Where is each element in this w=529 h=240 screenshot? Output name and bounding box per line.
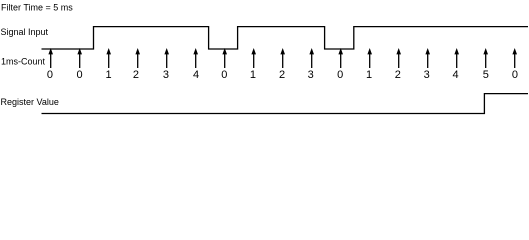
svg-text:0: 0	[47, 69, 53, 81]
svg-text:1: 1	[250, 69, 256, 81]
svg-text:2: 2	[133, 69, 139, 81]
arrow 13 (1ms sample tick)	[396, 48, 401, 68]
arrow 9 (1ms sample tick)	[280, 48, 285, 68]
svg-text:3: 3	[424, 69, 430, 81]
arrow 1 (1ms sample tick)	[48, 48, 53, 68]
svg-text:0: 0	[221, 69, 227, 81]
arrow 4 (1ms sample tick)	[135, 48, 140, 68]
svg-text:Filter Time = 5 ms: Filter Time = 5 ms	[1, 2, 73, 12]
svg-text:3: 3	[163, 69, 169, 81]
arrow 15 (1ms sample tick)	[454, 48, 459, 68]
arrow 14 (1ms sample tick)	[425, 48, 430, 68]
svg-text:0: 0	[77, 69, 83, 81]
svg-text:1ms-Count: 1ms-Count	[1, 57, 46, 67]
svg-text:5: 5	[483, 69, 489, 81]
arrow 6 (1ms sample tick)	[193, 48, 198, 68]
arrow 11 (1ms sample tick)	[338, 48, 343, 68]
wire: Register Value waveform	[42, 94, 529, 114]
svg-text:4: 4	[453, 69, 459, 81]
arrow 2 (1ms sample tick)	[77, 48, 82, 68]
svg-text:Signal Input: Signal Input	[1, 27, 49, 37]
svg-text:2: 2	[279, 69, 285, 81]
arrow 3 (1ms sample tick)	[106, 48, 111, 68]
svg-text:Register Value: Register Value	[1, 97, 59, 107]
wire: Signal Input waveform	[42, 27, 529, 49]
arrow 17 (1ms sample tick)	[512, 48, 517, 68]
arrow 5 (1ms sample tick)	[164, 48, 169, 68]
arrow 12 (1ms sample tick)	[367, 48, 372, 68]
svg-text:3: 3	[308, 69, 314, 81]
svg-text:1: 1	[105, 69, 111, 81]
arrow 10 (1ms sample tick)	[309, 48, 314, 68]
svg-text:2: 2	[395, 69, 401, 81]
svg-text:0: 0	[512, 69, 518, 81]
arrow 16 (1ms sample tick)	[483, 48, 488, 68]
arrow 8 (1ms sample tick)	[251, 48, 256, 68]
svg-text:1: 1	[366, 69, 372, 81]
svg-text:4: 4	[193, 69, 199, 81]
arrow 7 (1ms sample tick)	[222, 48, 227, 68]
svg-text:0: 0	[337, 69, 343, 81]
